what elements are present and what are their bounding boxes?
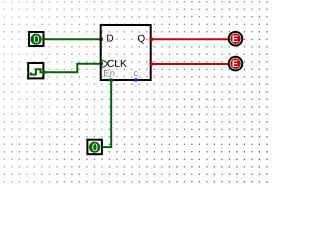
value label E on O1	[233, 35, 238, 42]
D flip-flop U1	[101, 25, 151, 80]
node: unconnected clear pin (blue)	[134, 78, 138, 82]
value label 0 on P1	[34, 35, 39, 43]
pin label Q	[138, 35, 145, 44]
clock-edge chevron on CLK pin	[101, 60, 107, 68]
input pin P2 (enable, value 0)	[87, 140, 102, 155]
pin label D	[107, 35, 113, 42]
input pin P1 (D input, value 0)	[29, 32, 44, 46]
wire: CLK1 to CLK pin	[42, 62, 103, 74]
value label 0 on P2	[92, 143, 97, 151]
pin label En	[104, 70, 114, 77]
pin label c	[134, 71, 138, 76]
output pin O2 (value E)	[229, 57, 243, 71]
value label E on O2	[233, 60, 238, 67]
wire: inverted Q output to O2	[149, 62, 228, 66]
clock CLK1	[28, 63, 43, 78]
wire: P2 to En pin	[102, 78, 113, 147]
wire: Q output to O1	[149, 37, 228, 41]
output pin O1 (value E)	[229, 32, 243, 46]
pin label CLK	[107, 60, 126, 67]
wire: P1 to D input	[44, 37, 104, 41]
